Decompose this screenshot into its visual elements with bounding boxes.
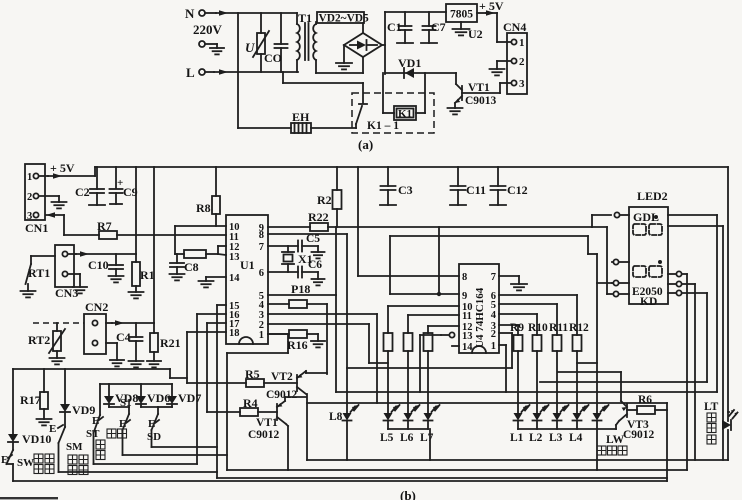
terminal N	[199, 10, 205, 16]
svg-text:CN4: CN4	[503, 20, 526, 34]
relay contact K1-1 switch	[362, 83, 364, 103]
wire row 470	[227, 469, 687, 471]
wire CN1 pin2 ground	[40, 195, 59, 197]
svg-text:R7: R7	[97, 219, 112, 233]
svg-text:N: N	[185, 6, 195, 21]
wire R22 node rail	[328, 226, 592, 228]
resistor R21	[153, 323, 155, 333]
wire +9V rail	[385, 11, 446, 13]
svg-text:CO: CO	[264, 51, 282, 65]
svg-text:1: 1	[259, 330, 264, 341]
wire U1 pin14 ground	[206, 276, 226, 278]
wire CN2 pin1	[106, 322, 112, 324]
resistor R9	[514, 335, 523, 351]
resistor R1	[135, 254, 137, 262]
ground	[37, 418, 52, 420]
led2 left pins	[614, 212, 619, 217]
terminal L	[199, 69, 205, 75]
regulator 7805 U2	[446, 4, 477, 22]
wire pin8 route to L8	[268, 233, 347, 235]
svg-text:C4: C4	[116, 330, 131, 344]
wire CN2 pin2 ground	[106, 342, 117, 344]
wire main row 460	[307, 459, 728, 461]
svg-text:4: 4	[491, 310, 497, 321]
wire L5-L7 common	[388, 428, 428, 430]
svg-text:R17: R17	[20, 393, 41, 407]
wire RT2 dashed	[33, 322, 84, 324]
svg-text:R11: R11	[549, 322, 568, 334]
svg-text:R10: R10	[528, 322, 548, 334]
svg-text:3: 3	[519, 78, 525, 90]
ground	[312, 278, 325, 280]
svg-text:CN3: CN3	[55, 286, 78, 300]
wires led2 right pins down	[686, 274, 688, 470]
capacitor C5	[268, 245, 298, 247]
svg-text:+ 5V: + 5V	[479, 0, 504, 13]
svg-text:L4: L4	[569, 432, 583, 444]
label box VD2~VD5	[317, 12, 364, 23]
ground	[50, 357, 65, 359]
svg-text:LED2: LED2	[637, 189, 668, 203]
capacitor C7	[428, 12, 430, 26]
svg-text:RT2: RT2	[28, 333, 50, 347]
svg-text:C10: C10	[88, 258, 109, 272]
svg-text:L7: L7	[420, 432, 434, 444]
svg-text:8: 8	[259, 230, 264, 241]
svg-text:R16: R16	[287, 338, 308, 352]
ground	[511, 283, 527, 285]
wires U4 pins 10-12	[388, 305, 459, 307]
resistors display segment left	[387, 306, 389, 333]
wire segment share R10	[540, 381, 707, 383]
svg-text:VD7: VD7	[178, 391, 201, 405]
svg-text:SW: SW	[17, 457, 34, 469]
label SM function	[68, 455, 77, 464]
wire pin5 to R22	[268, 294, 336, 296]
resistor R11	[553, 335, 562, 351]
wires U4 outputs to R9-R12	[499, 294, 577, 296]
svg-text:C7: C7	[431, 20, 446, 34]
ground	[448, 107, 463, 109]
resistor R12	[573, 335, 582, 351]
ground	[109, 275, 124, 277]
wire L1-LW common	[518, 428, 616, 430]
svg-text:P18: P18	[291, 282, 310, 296]
scan artifact	[0, 497, 58, 499]
wire CN4 pin2 ground	[497, 60, 511, 62]
wire step to LED2	[587, 236, 589, 254]
svg-text:U1: U1	[240, 258, 255, 272]
capacitor C12	[497, 167, 499, 186]
svg-text:1: 1	[519, 37, 525, 49]
resistor R7	[99, 231, 117, 239]
switch SW	[12, 442, 14, 450]
wire bridge top	[362, 23, 364, 33]
connector CN1	[25, 164, 45, 220]
capacitor C6	[268, 271, 298, 273]
resistor R17	[40, 392, 48, 409]
led L4	[573, 413, 582, 421]
connector CN3	[55, 245, 74, 287]
capacitor C1	[404, 12, 406, 26]
svg-text:L3: L3	[549, 432, 563, 444]
svg-text:C2: C2	[75, 185, 90, 199]
wire +5V from CN1	[40, 175, 48, 177]
svg-text:VT1: VT1	[468, 82, 490, 94]
svg-text:2: 2	[491, 329, 496, 340]
svg-text:R5: R5	[245, 367, 260, 381]
ground	[110, 359, 124, 361]
resistor R4	[207, 411, 240, 413]
svg-text:R21: R21	[160, 336, 181, 350]
wire U4 pin8 clock	[357, 167, 359, 276]
svg-text:C12: C12	[507, 183, 528, 197]
svg-text:ST: ST	[86, 428, 100, 440]
wire CN3 pin1 to node	[69, 253, 76, 255]
label start vertical	[96, 440, 105, 449]
dashed box relay K1-1	[352, 93, 434, 133]
svg-text:VT2: VT2	[271, 371, 293, 383]
wire segment share R11 to VT3	[558, 371, 621, 373]
capacitor C10	[115, 254, 117, 265]
capacitor CO	[280, 13, 282, 44]
diode VD7	[171, 384, 173, 396]
wire U1 pin10	[175, 225, 226, 227]
resistor R22	[268, 226, 310, 228]
ground	[129, 291, 144, 293]
wire switch matrix rows	[152, 446, 218, 448]
wires led2 right top	[668, 214, 717, 216]
svg-text:C6: C6	[308, 259, 322, 271]
diode VD8	[108, 384, 110, 396]
wire rail to LED2 top pin	[591, 215, 593, 227]
wire U1 pin16	[197, 313, 226, 315]
transistor VT3 C9012	[626, 404, 628, 417]
bridge rectifier VD2-VD5	[344, 33, 382, 57]
svg-text:C1: C1	[387, 20, 402, 34]
svg-text:VD1: VD1	[398, 56, 421, 70]
transistor VT2 C9012	[264, 382, 297, 384]
wires to LEDs L5-L7	[387, 351, 389, 413]
svg-text:(b): (b)	[400, 488, 416, 500]
ground at bridge	[343, 45, 345, 63]
svg-text:L6: L6	[400, 432, 414, 444]
wire VT2 collector down	[306, 394, 308, 460]
wire to pin12	[217, 246, 219, 254]
svg-text:(a): (a)	[358, 137, 373, 152]
svg-text:CN2: CN2	[85, 300, 108, 314]
switch S1 timer	[109, 406, 129, 408]
svg-text:7: 7	[491, 272, 496, 283]
label start lamp	[707, 413, 716, 422]
svg-text:1: 1	[491, 341, 496, 352]
svg-text:8: 8	[462, 272, 467, 283]
svg-text:220V: 220V	[193, 22, 223, 37]
wire CN4 pin3 to VT1 base	[500, 82, 511, 84]
wire U4 pin9 net	[390, 293, 459, 295]
ground	[311, 340, 325, 342]
led L2	[533, 413, 542, 421]
svg-text:R8: R8	[196, 201, 211, 215]
led L5	[384, 413, 393, 421]
wire U1 pin17	[207, 322, 226, 324]
svg-text:13: 13	[229, 252, 240, 263]
svg-text:2: 2	[519, 56, 525, 68]
capacitor C4	[135, 323, 137, 337]
svg-text:KD: KD	[640, 296, 657, 308]
resistor R16	[268, 333, 289, 335]
svg-text:R1: R1	[140, 268, 155, 282]
capacitor C3	[387, 167, 389, 186]
ground	[170, 273, 185, 275]
ground	[312, 251, 325, 253]
ic U4 74HC164	[459, 264, 499, 353]
svg-text:LT: LT	[704, 401, 719, 413]
diode VD6	[140, 384, 142, 396]
ground	[52, 201, 67, 203]
wire U4 pin13 bubble	[449, 332, 454, 337]
wire RT1 to CN3	[31, 255, 55, 257]
svg-text:K1 – 1: K1 – 1	[367, 120, 399, 132]
svg-text:R6: R6	[638, 394, 652, 406]
label keep warm lamp	[597, 446, 606, 455]
svg-text:VD2~VD5: VD2~VD5	[319, 13, 370, 25]
svg-text:L2: L2	[529, 432, 543, 444]
switch ST start	[99, 384, 101, 415]
svg-text:R22: R22	[308, 210, 329, 224]
wire U1 pin15	[217, 304, 226, 306]
wire VT3 collector	[620, 372, 622, 401]
svg-text:C11: C11	[466, 183, 486, 197]
svg-text:+ 5V: + 5V	[50, 161, 75, 175]
svg-text:R12: R12	[569, 322, 589, 334]
label timer	[107, 429, 116, 438]
svg-text:C9012: C9012	[248, 429, 280, 441]
svg-text:CN1: CN1	[25, 221, 48, 235]
svg-text:VD6: VD6	[147, 391, 170, 405]
svg-text:11: 11	[462, 311, 472, 322]
svg-text:C9012: C9012	[623, 429, 655, 441]
svg-text:7: 7	[259, 242, 264, 253]
svg-text:VT1: VT1	[256, 417, 278, 429]
svg-text:LW: LW	[606, 434, 625, 446]
wire R7 to U1 pin11	[117, 234, 226, 236]
wire block border	[13, 368, 170, 370]
wire bottom rail	[13, 480, 667, 482]
wire +5V rail section b	[95, 166, 728, 168]
ground	[210, 47, 224, 49]
lamp LT	[722, 420, 731, 430]
wire CN1 pin3 to R7	[46, 212, 55, 218]
wire pin3 route	[268, 313, 377, 315]
wire L to EH	[237, 13, 239, 128]
svg-text:VD10: VD10	[22, 432, 51, 446]
svg-text:K1: K1	[398, 108, 412, 120]
ground	[21, 290, 36, 292]
svg-text:1: 1	[27, 172, 32, 183]
capacitor C9 electrolytic	[115, 167, 117, 188]
svg-text:L8: L8	[329, 411, 343, 423]
wire VT2 emitter to P18 node	[305, 371, 307, 373]
capacitor C11	[457, 167, 459, 186]
ground	[147, 360, 161, 362]
wire diode bus	[100, 383, 172, 385]
diode VD1	[385, 72, 456, 74]
transistor VT1 C9013	[461, 86, 463, 100]
svg-text:7805: 7805	[450, 9, 473, 21]
capacitor C2	[96, 167, 98, 189]
svg-text:C9012: C9012	[266, 389, 298, 401]
resistor R10	[533, 335, 542, 351]
svg-text:SD: SD	[147, 431, 161, 443]
wire U1 pin18	[187, 331, 226, 333]
svg-text:L: L	[186, 65, 195, 80]
led L1	[514, 413, 523, 421]
svg-text:9: 9	[462, 291, 467, 302]
ground	[73, 286, 87, 288]
diode VD10	[8, 434, 18, 442]
svg-text:18: 18	[229, 328, 240, 339]
resistor R5	[187, 382, 246, 384]
led LW keep warm	[593, 413, 602, 421]
svg-text:R2: R2	[317, 193, 332, 207]
svg-text:U4 74HC164: U4 74HC164	[474, 287, 486, 348]
svg-text:14: 14	[229, 273, 240, 284]
svg-text:14: 14	[462, 342, 473, 353]
wire segment share R12 to LW	[577, 362, 597, 364]
svg-text:R9: R9	[510, 322, 524, 334]
led L7	[424, 413, 433, 421]
wires R9-R12 to LEDs	[517, 351, 519, 413]
wire +5V rail drop right	[727, 167, 729, 421]
terminal mid with ground	[199, 41, 205, 47]
svg-text:RT1: RT1	[28, 266, 50, 280]
ic U1	[226, 215, 268, 344]
wire +5V out	[477, 12, 486, 14]
capacitor C8	[176, 254, 178, 263]
svg-text:U: U	[245, 40, 255, 55]
label keep-warm cancel	[34, 454, 43, 463]
svg-text:SM: SM	[66, 441, 83, 453]
wire U4 pin1	[499, 344, 506, 346]
wire +5V drop to R1	[135, 167, 137, 254]
wire CN3 pin2 ground	[69, 273, 80, 275]
svg-text:U2: U2	[468, 27, 483, 41]
wire pin4 route	[326, 304, 328, 374]
wire pin5 node down	[335, 295, 337, 392]
wire bus top	[43, 369, 45, 392]
svg-text:EH: EH	[292, 110, 310, 124]
wire VT1b emitter	[286, 424, 288, 426]
ground	[129, 360, 144, 362]
svg-text:L1: L1	[510, 432, 524, 444]
crystal X1	[287, 246, 289, 252]
resistor on pin13	[175, 253, 184, 255]
svg-text:C8: C8	[184, 260, 199, 274]
wire sense line down	[153, 167, 155, 323]
svg-text:13: 13	[462, 331, 473, 342]
varistor U	[260, 13, 262, 33]
led L8	[343, 413, 352, 421]
wire VT1b collector	[284, 397, 286, 401]
resistor R2	[336, 167, 338, 190]
ground	[490, 68, 505, 70]
wire row 478	[217, 477, 667, 479]
wire under-led rail	[307, 402, 667, 404]
resistor R6	[627, 409, 637, 411]
svg-text:2: 2	[27, 192, 32, 203]
svg-text:S1: S1	[120, 397, 132, 409]
wire U1 pin1 route	[268, 333, 288, 335]
led2 right pins	[676, 271, 681, 276]
svg-text:R4: R4	[243, 396, 258, 410]
resistor R8	[215, 167, 217, 196]
transistor VT1 C9012 section b	[258, 411, 277, 413]
svg-text:6: 6	[259, 268, 264, 279]
diode VD9	[64, 369, 66, 404]
relay coil K1	[382, 73, 384, 113]
wire U4 pin14	[452, 345, 459, 347]
wire pin2 route	[268, 323, 369, 325]
wire to LED2 pin4	[592, 226, 607, 228]
led L6	[404, 413, 413, 421]
ground	[199, 280, 214, 282]
svg-text:L5: L5	[380, 432, 394, 444]
wire LT top	[728, 411, 729, 413]
wire R6 to rail	[655, 409, 667, 411]
wire L branch to switch	[282, 72, 284, 83]
heater EH	[238, 127, 291, 129]
switch SD	[141, 406, 158, 408]
wire bridge output	[382, 44, 385, 46]
svg-text:C3: C3	[398, 183, 413, 197]
wire U4 pin7 ground	[499, 275, 519, 277]
svg-text:C9013: C9013	[465, 95, 497, 107]
wire U4 pin2	[499, 332, 512, 334]
wire bridge bottom	[362, 57, 364, 73]
led L3	[553, 413, 562, 421]
